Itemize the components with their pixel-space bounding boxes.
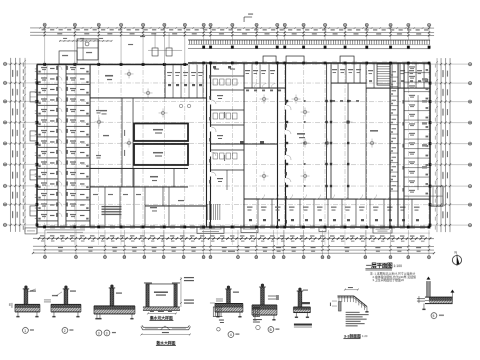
svg-text:3.卫生间地面低于楼面20: 3.卫生间地面低于楼面20 — [372, 277, 404, 282]
svg-text:散水大样图: 散水大样图 — [156, 340, 175, 345]
svg-text:3-3剖面图: 3-3剖面图 — [344, 333, 361, 338]
svg-text:5: 5 — [433, 314, 435, 318]
svg-text:1:20: 1:20 — [362, 334, 368, 338]
svg-text:2: 2 — [64, 329, 66, 333]
svg-text:3: 3 — [106, 331, 108, 335]
svg-text:B: B — [270, 328, 272, 332]
svg-text:3: 3 — [98, 331, 100, 335]
svg-text:4: 4 — [230, 333, 232, 337]
svg-text:1:100: 1:100 — [393, 264, 402, 268]
svg-text:集水坑大样图: 集水坑大样图 — [149, 315, 173, 320]
svg-text:一层平面图: 一层平面图 — [366, 262, 393, 270]
svg-text:1: 1 — [24, 329, 26, 333]
